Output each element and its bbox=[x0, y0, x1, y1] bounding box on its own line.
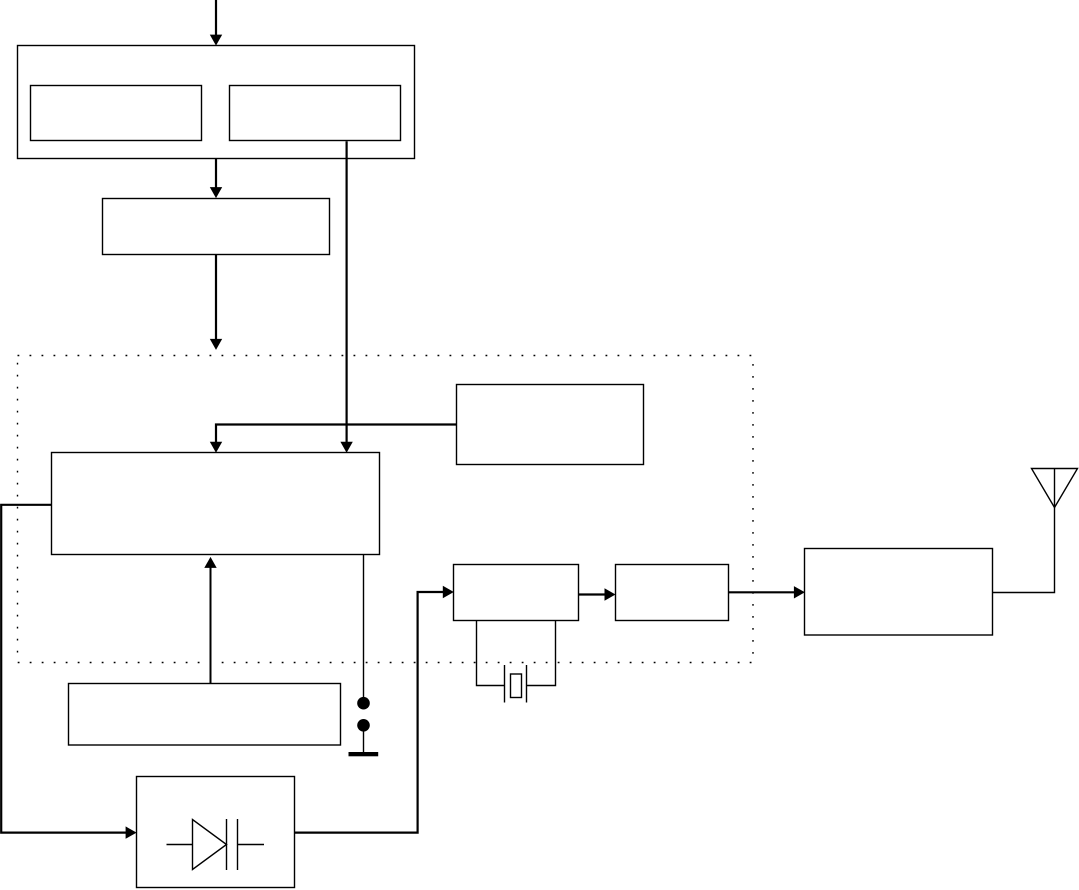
block I (feedback box) bbox=[69, 684, 341, 746]
ground bbox=[349, 752, 379, 756]
block A outer box bbox=[18, 46, 415, 159]
wire arrow A to B bbox=[215, 159, 217, 188]
dotted region boundary (RF section) bbox=[18, 356, 754, 663]
wire arrow G to H bbox=[729, 591, 795, 593]
wire A2 down into block C bbox=[346, 141, 348, 442]
block D bbox=[457, 385, 644, 465]
antenna bbox=[1032, 469, 1078, 508]
block E (diode/modulator box) bbox=[137, 777, 295, 888]
block G bbox=[616, 565, 729, 621]
wire E right up into block F bbox=[295, 592, 444, 833]
wire arrow I up into C bbox=[210, 567, 212, 683]
wire arrow B down to dotted region bbox=[215, 255, 217, 340]
block A2 inner box bbox=[230, 86, 401, 141]
switch contact dot upper bbox=[357, 697, 370, 710]
wire dot to ground bbox=[363, 731, 365, 752]
wire H to antenna bbox=[993, 508, 1055, 593]
diode D1 with capacitor plate (inside block E) bbox=[167, 844, 193, 846]
block A1 inner box bbox=[31, 86, 202, 141]
block C (large box) bbox=[52, 453, 380, 555]
wire C left loop down to block E bbox=[1, 505, 126, 833]
block B bbox=[103, 199, 330, 255]
block H (power amplifier) bbox=[805, 549, 993, 636]
wire input arrow into block A bbox=[215, 0, 217, 35]
wire C bottom to switch bbox=[363, 555, 365, 699]
wire D to C with corner bbox=[216, 425, 456, 443]
crystal Y1 (under block F) bbox=[477, 621, 505, 686]
switch contact dot lower bbox=[357, 719, 370, 732]
wire arrow F to G bbox=[579, 593, 606, 595]
block F (oscillator) bbox=[454, 565, 579, 621]
